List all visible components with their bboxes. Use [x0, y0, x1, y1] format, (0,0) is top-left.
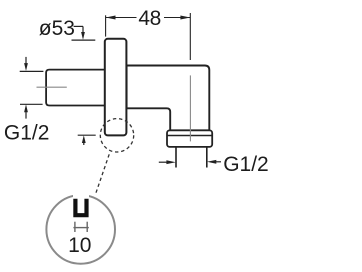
left G1/2: lower arrow tail	[25, 111, 27, 119]
detail arc gap at slot	[73, 191, 89, 199]
dimension 48: dim line left segment	[106, 17, 137, 19]
right G1/2: right arrow tail	[215, 161, 222, 163]
dimension 48: right arrowhead	[180, 16, 190, 20]
centerline horizontal (inlet axis)	[37, 86, 67, 88]
collar inner line	[167, 135, 211, 137]
svg-text:G1/2: G1/2	[223, 153, 269, 176]
centerline vertical (outlet axis)	[189, 75, 191, 141]
ø53 leader horizontal	[74, 25, 83, 27]
right G1/2: left arrowhead	[166, 160, 175, 164]
dimension 48: right extension line	[189, 13, 191, 60]
ø53 leader arrowhead down	[81, 32, 85, 40]
ø53 bottom extension tick	[78, 134, 96, 136]
right G1/2: right arrowhead	[207, 160, 216, 164]
svg-text:ø53: ø53	[39, 17, 75, 40]
detail width dim right tick	[86, 222, 88, 232]
inlet pipe (wall supply)	[46, 70, 106, 106]
ø53 top extension tick	[72, 39, 96, 41]
dimension 48: dim line right segment	[164, 17, 190, 19]
dimension 48: left arrowhead	[106, 16, 116, 20]
svg-text:G1/2: G1/2	[4, 121, 50, 144]
outlet pipe right side	[206, 147, 208, 167]
detail width dim line	[73, 227, 88, 229]
dimension 48: left extension line	[105, 15, 107, 36]
svg-text:48: 48	[138, 7, 160, 30]
right G1/2: left arrow tail	[159, 161, 168, 163]
dashed leader to detail	[95, 154, 109, 195]
detail slot notch	[75, 199, 86, 215]
left G1/2: upper arrow tail	[25, 57, 27, 64]
collar nut	[167, 130, 212, 147]
detail view circle	[46, 195, 115, 264]
detail reference dashed circle	[100, 119, 133, 152]
detail width dim left tick	[74, 222, 76, 232]
left G1/2: upper arrowhead down	[24, 63, 28, 71]
left G1/2: lower arrowhead up	[24, 104, 28, 112]
left G1/2: upper extension line	[20, 70, 44, 72]
ø53 bottom arrowhead up	[82, 135, 86, 143]
ø53 leader vertical	[82, 26, 84, 33]
outlet pipe left side	[175, 147, 177, 167]
svg-text:10: 10	[68, 234, 91, 257]
ø53 bottom arrow tail	[83, 141, 85, 145]
left G1/2: lower extension line	[20, 103, 43, 105]
valve body L-shape	[127, 66, 210, 131]
escutcheon plate	[105, 39, 127, 136]
